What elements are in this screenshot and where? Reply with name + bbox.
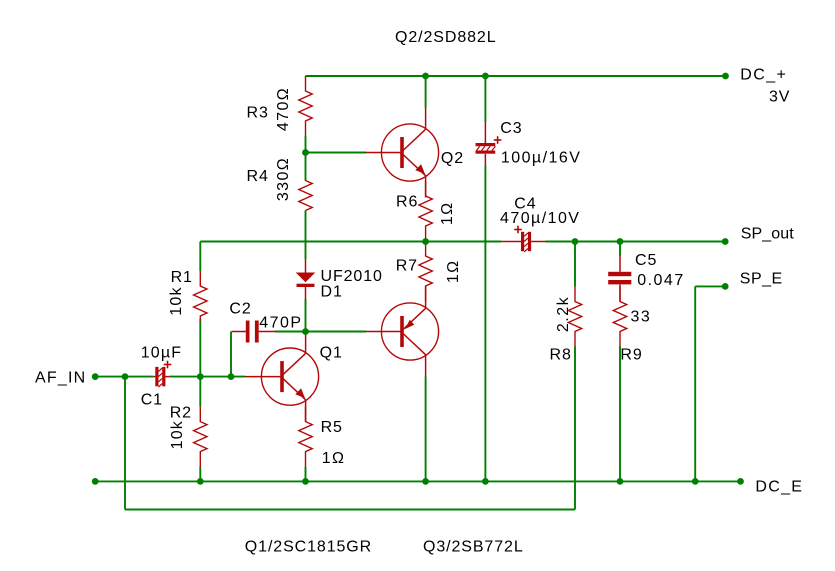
wire DC_E rail [95, 480, 740, 482]
wire D1 cathode to node [305, 299, 307, 332]
resistor R8 2.2k [568, 287, 581, 347]
svg-text:2.2k: 2.2k [555, 296, 572, 332]
wire SP_out rail left segment [200, 241, 501, 243]
wire Q2 collector to top rail [425, 76, 427, 108]
svg-text:3V: 3V [769, 89, 790, 106]
wire C3 top lead [484, 76, 486, 122]
capacitor C3 100u/16V [484, 122, 486, 143]
wire C5 top lead [619, 242, 621, 257]
svg-text:UF2010: UF2010 [321, 268, 383, 285]
terminal SP_E [722, 283, 729, 290]
wire AF_IN horizontal [95, 376, 153, 378]
svg-text:DC_+: DC_+ [740, 67, 787, 84]
svg-text:1Ω: 1Ω [445, 259, 462, 283]
transistor Q3 PNP 2SB772L [381, 303, 438, 360]
junction SP_out / R8 [572, 238, 579, 245]
svg-text:330Ω: 330Ω [275, 157, 292, 201]
svg-text:1Ω: 1Ω [322, 450, 346, 467]
junction top rail / Q2 collector [422, 73, 429, 80]
wire Q3 base from D1/C2 junction [306, 331, 367, 333]
junction DC_E left end [92, 478, 99, 485]
svg-text:C1: C1 [141, 392, 163, 409]
svg-text:R7: R7 [396, 258, 418, 275]
wire R3 top corner vertical [305, 75, 307, 78]
diode D1 UF2010 [305, 259, 307, 273]
wire R4 to D1 anode [305, 211, 307, 260]
resistor R9 33 [613, 287, 626, 347]
svg-text:D1: D1 [321, 284, 343, 301]
capacitor C5 0.047 [619, 256, 621, 272]
svg-text:SP_E: SP_E [740, 271, 783, 288]
svg-text:R2: R2 [170, 405, 192, 422]
wire SP_out rail right segment [546, 241, 726, 243]
svg-text:470µ/10V: 470µ/10V [500, 210, 580, 227]
svg-text:Q3/2SB772L: Q3/2SB772L [423, 539, 524, 556]
transistor Q2 NPN 2SD882L [381, 124, 438, 181]
svg-text:Q1/2SC1815GR: Q1/2SC1815GR [245, 539, 372, 556]
wire R8 bottom to feedback [574, 347, 576, 510]
capacitor C4 470u/10V [501, 241, 521, 243]
terminal DC_+ [722, 73, 729, 80]
svg-text:Q2/2SD882L: Q2/2SD882L [395, 29, 497, 46]
wire R9 bottom to DC_E [619, 347, 621, 482]
svg-text:10k: 10k [169, 420, 186, 449]
resistor R1 10k [194, 271, 207, 321]
wire C2 output segment [275, 331, 306, 333]
svg-text:R3: R3 [247, 105, 269, 122]
junction DC_E / C3 [482, 478, 489, 485]
junction AF_IN / C2 branch [228, 373, 235, 380]
svg-text:470Ω: 470Ω [275, 87, 292, 131]
svg-text:10k: 10k [168, 286, 185, 315]
transistor Q1 NPN 2SC1815GR [261, 348, 318, 405]
junction DC_E / R5 [302, 478, 309, 485]
wire base junction to R4 [305, 153, 307, 181]
svg-text:0.047: 0.047 [637, 272, 685, 289]
svg-text:100µ/16V: 100µ/16V [501, 149, 581, 166]
svg-text:AF_IN: AF_IN [35, 370, 86, 387]
wire Q3 collector to DC_E [425, 377, 427, 482]
svg-text:R8: R8 [550, 347, 572, 364]
wire R2 bottom to DC_E [199, 467, 201, 482]
junction SP_out / R6 R7 [422, 238, 429, 245]
wire feedback left vertical [124, 377, 126, 510]
terminal AF_IN [92, 373, 99, 380]
svg-text:Q1: Q1 [320, 345, 343, 362]
wire top rail DC_+ y=76 [306, 75, 726, 77]
resistor R6 1ohm [419, 181, 432, 241]
svg-text:C2: C2 [229, 301, 251, 318]
wire R1 bottom to AF_IN node [199, 319, 201, 377]
svg-text:DC_E: DC_E [755, 479, 803, 496]
svg-text:R9: R9 [620, 347, 642, 364]
resistor R7 1ohm [419, 241, 432, 301]
junction SP_out / C5 [617, 238, 624, 245]
wire R8 top lead [574, 242, 576, 287]
resistor R4 330ohm [299, 181, 312, 211]
svg-text:SP_out: SP_out [741, 226, 795, 243]
junction DC_E / SP_E branch [692, 478, 699, 485]
capacitor C2 470P [232, 331, 246, 333]
wire SP_E vertical [694, 286, 696, 481]
wire R1 top vertical from SP_out corner [199, 242, 201, 272]
terminal SP_out [722, 238, 729, 245]
resistor R2 10k [194, 407, 207, 467]
svg-text:33: 33 [631, 309, 652, 326]
wire SP_E horizontal [695, 285, 725, 287]
junction DC_E / R2 [197, 478, 204, 485]
junction top rail / C3 [482, 73, 489, 80]
junction AF_IN / feedback [122, 373, 129, 380]
wire C2 left vertical [230, 332, 232, 377]
svg-text:R4: R4 [247, 168, 269, 185]
junction DC_E / Q3 collector [422, 478, 429, 485]
capacitor C1 10uF [153, 376, 155, 378]
wire R5 bottom to DC_E [305, 467, 307, 482]
resistor R3 470ohm [299, 76, 312, 136]
resistor R5 1ohm [299, 407, 312, 467]
node D1/C2/Q1 collector/Q3 base junction [302, 328, 309, 335]
svg-text:R6: R6 [396, 193, 418, 210]
node R3/R4/Q2 base junction [302, 149, 309, 156]
svg-text:10µF: 10µF [141, 345, 183, 362]
terminal DC_E [737, 478, 744, 485]
junction DC_E / R9 [617, 478, 624, 485]
svg-text:C5: C5 [635, 252, 657, 269]
junction AF_IN / R1 R2 [197, 373, 204, 380]
svg-text:1Ω: 1Ω [439, 201, 456, 225]
svg-text:R1: R1 [171, 269, 193, 286]
svg-text:Q2: Q2 [441, 150, 464, 167]
wire R2 top lead [199, 377, 201, 407]
wire feedback bottom y=509.5 [125, 509, 575, 511]
wire Q2 base from R3/R4 junction [306, 152, 367, 154]
svg-text:R5: R5 [321, 419, 343, 436]
wire R3 bottom to base junction [305, 136, 307, 153]
wire C3 bottom to DC_E [484, 166, 486, 482]
svg-text:C3: C3 [500, 120, 522, 137]
svg-text:470P: 470P [259, 315, 302, 332]
wire C1 to R1/R2 node [170, 376, 245, 378]
